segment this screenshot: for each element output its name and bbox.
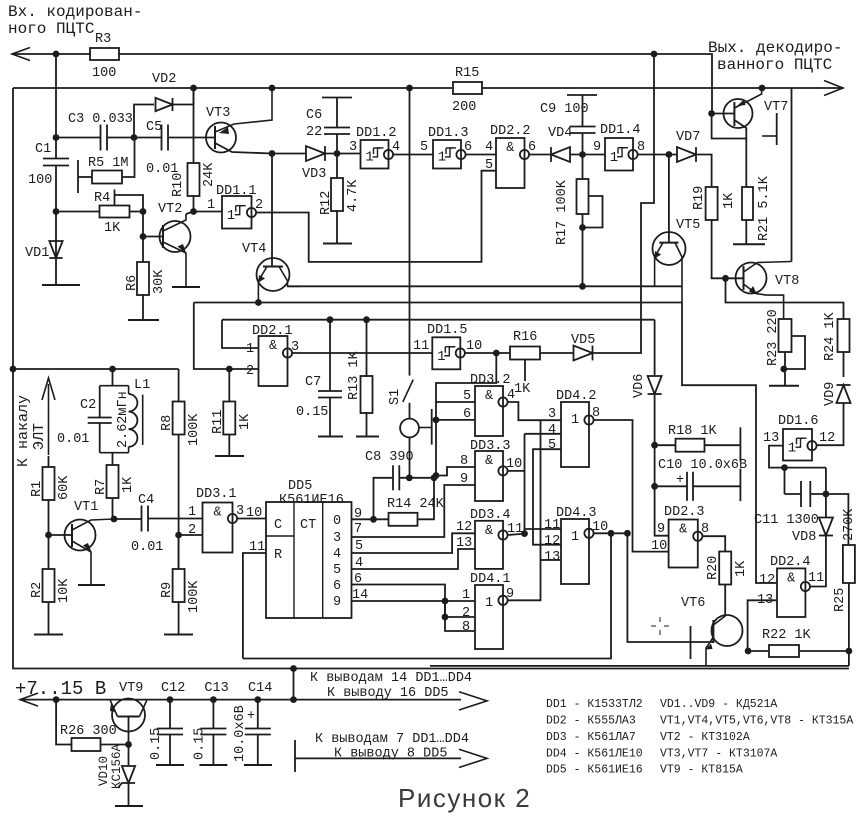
wire C11 right [810, 494, 848, 545]
label R9 value 100K [187, 580, 202, 613]
label DD2.4 [770, 555, 811, 570]
svg-text:DD1.6: DD1.6 [778, 414, 819, 429]
svg-text:C11 1300: C11 1300 [754, 513, 819, 528]
wire C1 column bottom [55, 166, 57, 286]
inductor L1 [129, 386, 143, 453]
wire C9 stem top [582, 95, 584, 127]
label C14 [248, 681, 272, 696]
transistor VT2 base bar [162, 225, 164, 248]
node C3 C5 VD2 junction [131, 134, 138, 141]
wire DD1.6 pin13 [769, 446, 826, 468]
label R24 value [823, 311, 838, 361]
wire VT2 base [143, 236, 163, 238]
wire R17 tap [583, 196, 603, 228]
label R3 [95, 32, 111, 47]
node DD4.1 p2 [442, 614, 449, 621]
label R19 [692, 186, 707, 210]
label C9 value [540, 102, 589, 117]
svg-text:&: & [269, 339, 277, 354]
label R8 value 100K [187, 413, 202, 446]
svg-text:C13: C13 [204, 681, 228, 696]
svg-text:VD3: VD3 [302, 167, 326, 182]
node VT4 emitter junction [255, 299, 262, 306]
svg-text:1: 1 [610, 150, 618, 166]
svg-text:C8 390: C8 390 [365, 450, 414, 465]
svg-text:12: 12 [819, 431, 835, 446]
svg-text:VT1: VT1 [74, 500, 98, 515]
wire VT7 base-collector loop [712, 114, 747, 188]
label C4 value 0.01 [131, 540, 163, 555]
label R4 [94, 191, 110, 206]
transistor VT1 emitter [72, 541, 92, 585]
wire R13 bottom [366, 412, 368, 437]
wire DD1.5 out [465, 352, 510, 354]
text legend row3 col1 [546, 731, 636, 744]
wire tank top [112, 369, 114, 386]
text legend row5 col2 [660, 764, 743, 777]
svg-text:2: 2 [246, 364, 254, 379]
wire rail y320 [222, 319, 655, 321]
label C12 [161, 681, 185, 696]
svg-text:К561ИЕ16: К561ИЕ16 [279, 493, 344, 508]
svg-text:12: 12 [456, 520, 472, 535]
svg-text:R21 5.1K: R21 5.1K [757, 175, 772, 241]
label R12 value 4.7K [346, 179, 361, 212]
label R15 [455, 66, 479, 81]
text pins8 line2 [334, 747, 447, 762]
node VT8 base dot [722, 275, 729, 282]
label C3 value [68, 112, 133, 127]
node C10 junction [651, 483, 658, 490]
pin 8 DD4.2 [592, 406, 600, 421]
svg-text:R5 1M: R5 1M [88, 156, 129, 171]
wire VD3 to DD1.2 [325, 153, 361, 155]
wire R11 bottom [228, 435, 230, 457]
resistor R25 [843, 545, 855, 583]
text legend row3 col2 [660, 731, 750, 744]
label DD5 out 6 [333, 579, 341, 594]
electrode bar ground arrow [294, 740, 296, 772]
label DD1.2 [356, 126, 397, 141]
svg-text:CT: CT [300, 518, 316, 533]
svg-text:C14: C14 [248, 681, 272, 696]
pin 3 DD2.1 [291, 340, 299, 355]
pin 11 DD4.3 [544, 518, 560, 533]
node VT7 base junction [708, 110, 715, 117]
label R26 value [60, 724, 117, 739]
label K nakalu [15, 395, 32, 467]
resistor R22 [769, 645, 799, 657]
node VT1 collector junction [111, 516, 118, 523]
text pins7 line1 [315, 732, 469, 747]
wire R2 bottom [48, 602, 50, 635]
wire C7 top [329, 320, 331, 391]
svg-text:13: 13 [456, 536, 472, 551]
label C10 value [658, 458, 747, 473]
output circle DD3.4 [498, 530, 507, 539]
wire DD3.2 out [508, 402, 561, 420]
label R12 [319, 191, 334, 215]
svg-text:R9: R9 [160, 582, 175, 598]
svg-text:DD1.3: DD1.3 [428, 126, 469, 141]
logic gate DD4.2 [561, 402, 589, 467]
resistor R23 trimmer [779, 319, 792, 352]
resistor R6 [137, 262, 149, 295]
output arrow right [824, 81, 843, 96]
svg-text:R6: R6 [125, 275, 140, 291]
wire C14 bottom [257, 735, 259, 766]
svg-text:100: 100 [28, 173, 52, 188]
svg-text:1: 1 [365, 150, 373, 166]
diode VD1 [49, 241, 62, 258]
node input C1 junction [53, 51, 60, 58]
svg-text:R22 1K: R22 1K [762, 628, 812, 643]
svg-text:0.01: 0.01 [57, 432, 89, 447]
transistor VT7 emitter [734, 88, 761, 108]
pin 1 DD2.1 [246, 342, 254, 357]
wire DD5 R input [243, 553, 266, 659]
svg-text:VD2: VD2 [152, 72, 176, 87]
wire C14 top [257, 700, 259, 729]
pin 2 DD1.1 [255, 198, 263, 213]
svg-text:1: 1 [246, 342, 254, 357]
wire C13 bottom [212, 735, 214, 766]
text legend row5 col1 [546, 764, 643, 777]
wire R13 top [366, 320, 368, 377]
wire R6 column [142, 237, 144, 263]
svg-text:ного ПЦТС: ного ПЦТС [8, 20, 94, 38]
label R4 value 1K [104, 221, 121, 236]
wire VT9 base stem [128, 717, 130, 745]
wire VT8 base [726, 277, 744, 279]
wire R21 bottom [745, 220, 747, 244]
wire C12 top [169, 700, 171, 729]
svg-text:13: 13 [544, 550, 560, 565]
transistor VT5 emitter [655, 243, 663, 287]
pin 11 DD3.4 [507, 522, 523, 537]
svg-text:&: & [679, 523, 687, 538]
label DD5 out 5 [333, 563, 341, 578]
pin 3 DD1.2 [349, 140, 357, 155]
wire C4 left [114, 518, 142, 520]
label C1 [35, 142, 51, 157]
wire R10 bottom [193, 196, 195, 212]
svg-text:8: 8 [462, 620, 470, 635]
label R23 value [766, 309, 781, 366]
label R3 value 100 [92, 66, 116, 81]
power arrow left [20, 693, 38, 706]
label VT1 [74, 500, 98, 515]
arrow to CRT heater [42, 378, 55, 455]
wire C4 right [148, 518, 203, 520]
wire R26 left [56, 700, 71, 745]
wire R9 top [178, 535, 180, 569]
label VD3 [302, 167, 326, 182]
wire R22 left [748, 650, 769, 652]
wire C9 stem bottom [582, 133, 584, 155]
svg-text:C: C [274, 518, 282, 533]
wire R4 trimmer tap [114, 190, 116, 206]
pin 9 DD3.3 [460, 472, 468, 487]
text legend row1 col1 [546, 698, 643, 711]
svg-text:3: 3 [548, 407, 556, 422]
resistor R13 [361, 376, 373, 413]
ground bar VT2 [172, 286, 200, 288]
svg-text:DD4 - К561ЛЕ10: DD4 - К561ЛЕ10 [546, 747, 643, 760]
cross mark [651, 617, 669, 635]
svg-text:R2: R2 [30, 582, 45, 598]
resistor R17 trimmer [577, 179, 589, 214]
label VT9 [119, 681, 143, 696]
svg-text:VT7: VT7 [764, 100, 788, 115]
input arrow left [12, 48, 30, 61]
resistor R5 [92, 171, 122, 184]
wire DD2.4 pin13 [748, 600, 777, 651]
wire R17 bottom [582, 214, 584, 288]
svg-text:К выводам 7 DD1…DD4: К выводам 7 DD1…DD4 [315, 732, 469, 747]
transistor VT9 base bar [118, 716, 140, 718]
wire DD3.1 pin2 [179, 534, 203, 536]
svg-text:R4: R4 [94, 191, 110, 206]
wire C8 right [399, 477, 436, 479]
wire rail y287 VT4 collector [288, 285, 682, 287]
wire DD3.1 output [237, 518, 266, 520]
pin 10 DD3.3 [506, 457, 522, 472]
electrode bar R18 [739, 427, 741, 461]
ground bar C14 [244, 764, 272, 766]
wire VT3 collector [215, 143, 272, 154]
pin 8 DD3.3 [460, 454, 468, 469]
label VD5 [571, 333, 595, 348]
wire power rail [20, 699, 461, 701]
text pins14 line1 [310, 671, 472, 686]
wire VD10 top [128, 745, 130, 767]
capacitor C12 [157, 729, 183, 735]
wire input rail y54 [12, 53, 91, 55]
transistor VT7 body [724, 99, 753, 128]
transistor VT6 body [712, 615, 743, 646]
wire R6 bottom [142, 295, 144, 320]
svg-text:VT4: VT4 [242, 242, 266, 257]
svg-text:VT9 - КТ815А: VT9 - КТ815А [660, 764, 743, 777]
svg-text:11: 11 [544, 518, 560, 533]
node S1 bottom [406, 474, 413, 481]
capacitor C8 [393, 465, 399, 490]
node R8 R9 DD3.1 junction [175, 532, 182, 539]
text input label line1 [8, 3, 142, 21]
svg-text:R23 220: R23 220 [766, 309, 781, 366]
resistor R21 [742, 187, 753, 220]
wire DD2.1 pin2 feed [194, 303, 259, 370]
wire DD5 pin7 bus [352, 485, 476, 537]
wire R4 to VT2 base [142, 212, 144, 237]
svg-text:VT6: VT6 [681, 596, 705, 611]
label DD4.2 [556, 389, 597, 404]
wire C6 stem top [336, 98, 338, 128]
diode VD3 [306, 146, 325, 161]
svg-text:1: 1 [571, 530, 579, 545]
svg-text:60K: 60K [57, 475, 72, 500]
svg-text:R1: R1 [30, 481, 45, 497]
svg-text:2: 2 [462, 606, 470, 621]
label DD5 type [279, 493, 344, 508]
resistor R3 [90, 48, 119, 60]
resistor R18 [676, 439, 705, 452]
transistor VT6 emitter [706, 637, 714, 666]
wire R26 right [101, 744, 129, 746]
pin 1 DD1.1 [207, 198, 215, 213]
svg-text:R3: R3 [95, 32, 111, 47]
node DD4.3 out reset [608, 530, 615, 537]
wire signal VT3c to VD3 [272, 153, 306, 155]
label R9 [160, 582, 175, 598]
pin 5 DD5 out [355, 539, 363, 554]
svg-text:11: 11 [413, 339, 429, 354]
capacitor C14 [245, 729, 271, 735]
svg-text:R13 1K: R13 1K [347, 350, 362, 400]
node R22 right [846, 648, 853, 655]
transistor VT8 collector [744, 262, 792, 273]
ground bar VD10 [115, 805, 143, 807]
node rail R10 [190, 85, 197, 92]
diode VD2 [156, 98, 173, 111]
diode VD7 [677, 147, 696, 162]
svg-text:Вых. декодиро-: Вых. декодиро- [708, 39, 842, 57]
wire VD7 to R19 [696, 155, 712, 188]
tank bottom bar [100, 452, 129, 454]
wire C2 branch bottom [99, 423, 101, 453]
label R16 value 1K [514, 382, 531, 397]
node R23 bottom junction [780, 366, 787, 373]
label R20 [706, 556, 721, 580]
transistor VT4 emitter [258, 267, 267, 303]
transistor VT9 emitter [110, 700, 118, 717]
logic gate DD2.4 [777, 568, 805, 617]
label S1 [388, 389, 403, 405]
transistor VT1 base bar [71, 524, 73, 547]
node VT2 base junction [140, 233, 147, 240]
ground bar R9 [164, 634, 193, 636]
label DD2.2 [490, 124, 531, 139]
pin 5 DD3.2 [463, 389, 471, 404]
node DD2.1 pin2 R11 junction [226, 366, 233, 373]
svg-text:VD1: VD1 [25, 246, 49, 261]
node R17 bottom junction [579, 224, 586, 231]
electrode bar R5 left [77, 160, 79, 193]
wire DD5 pin5 bus [352, 533, 476, 553]
label DD1.6 [778, 414, 819, 429]
label C6 value 22 [306, 125, 322, 140]
svg-text:4.7K: 4.7K [346, 179, 361, 212]
label R13 value [347, 350, 362, 400]
label VD6 [632, 374, 647, 398]
label VT2 [158, 202, 182, 217]
wire x524 to pin11 [524, 529, 526, 534]
ground bar R6 [128, 319, 159, 321]
svg-text:R19: R19 [692, 186, 707, 210]
svg-text:6: 6 [464, 140, 472, 155]
wire input to VT7 area [654, 54, 712, 114]
svg-text:0.01: 0.01 [131, 540, 163, 555]
logic gate DD3.3 [475, 451, 503, 501]
pin 6 DD5 out [354, 572, 362, 587]
capacitor C11 [801, 481, 810, 507]
wire C6 stem bottom [336, 134, 338, 154]
wire VD8 to DD2.4 out [810, 536, 826, 587]
label R20 value 1K [734, 560, 749, 577]
output circle DD3.1 [228, 514, 237, 523]
label C6 [306, 108, 322, 123]
wire y212 R4 left [56, 211, 100, 213]
svg-text:VD1..VD9 - КД521А: VD1..VD9 - КД521А [660, 698, 777, 711]
wire C12 bottom [169, 735, 171, 766]
wire DD2.3 out [702, 536, 725, 551]
svg-text:4: 4 [507, 388, 515, 403]
pin 12 DD3.4 [456, 520, 472, 535]
pin 10 DD2.3 [651, 539, 667, 554]
svg-text:0.15: 0.15 [192, 728, 207, 760]
svg-text:R8: R8 [160, 415, 175, 431]
svg-text:R16: R16 [513, 330, 537, 345]
pin 10 DD4.3 [592, 520, 608, 535]
node DD34 out [521, 530, 528, 537]
wire DD1.2 to DD1.3 [393, 154, 433, 156]
svg-text:6: 6 [333, 579, 341, 594]
svg-text:R10: R10 [171, 173, 186, 197]
output circle DD1.4 [628, 150, 637, 159]
text legend row2 col1 [546, 715, 636, 728]
node DD1.1 input junction [190, 208, 197, 215]
ground bar R11 [215, 455, 244, 457]
svg-text:30K: 30K [152, 269, 167, 294]
node DD3.3 pin8 net [433, 472, 440, 479]
ground arrow right [459, 749, 487, 767]
pin 9 DD1.4 [593, 140, 601, 155]
pin 8 DD1.4 [637, 140, 645, 155]
svg-text:8: 8 [637, 140, 645, 155]
label DD3.2 [470, 373, 511, 388]
logic gate DD1.5 [432, 337, 460, 369]
wire left frame border [13, 88, 849, 669]
svg-text:DD5: DD5 [288, 479, 312, 494]
transistor VT9 collector [140, 700, 147, 717]
logic gate DD4.1 [475, 585, 503, 649]
label VT6 [681, 596, 705, 611]
logic gate DD1.1 [222, 196, 252, 229]
node frame uplink [290, 665, 297, 672]
wire R5 left lead [78, 176, 92, 178]
wire C2 branch top [99, 386, 101, 418]
svg-text:VD10: VD10 [97, 756, 111, 786]
wire S1 column top [409, 88, 411, 376]
svg-text:DD3.1: DD3.1 [196, 487, 237, 502]
node power C13 [210, 696, 217, 703]
wire VD2 left lead [134, 105, 154, 138]
logic gate DD1.6 [783, 429, 812, 461]
logic gate DD1.4 [605, 138, 633, 171]
output circle DD3.2 [498, 397, 507, 406]
text legend row1 col2 [660, 698, 777, 711]
ground bar R12 [323, 243, 352, 245]
node rail320 C7 [327, 316, 334, 323]
wire VT5 collector to DD2.4 path [682, 303, 777, 584]
svg-text:5: 5 [463, 389, 471, 404]
node R14 left [370, 516, 377, 523]
resistor R20 [719, 552, 731, 585]
electrode bar VT7 right [762, 113, 777, 145]
node power uplink [290, 696, 297, 703]
output circle DD4.1 [498, 596, 507, 605]
